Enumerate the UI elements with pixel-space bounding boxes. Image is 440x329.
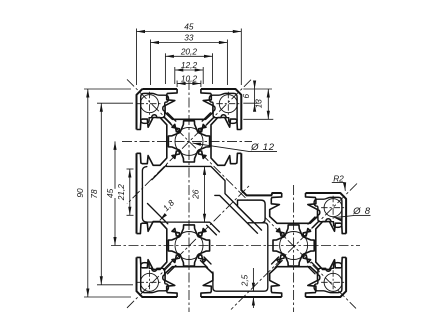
inner corner pocket cavity (238, 200, 266, 223)
svg-text:21,2: 21,2 (116, 184, 126, 202)
dimension 33 (151, 33, 228, 45)
extension lines top (137, 29, 242, 88)
boss 2 crosshair (216, 92, 240, 116)
dimension 26 (191, 166, 206, 222)
svg-text:Ø 8: Ø 8 (352, 206, 371, 217)
T-slot: left face lower slot (137, 222, 167, 270)
extension lines right of top section (243, 89, 273, 119)
leader and label R2 (332, 173, 347, 191)
dimension 78 (89, 103, 103, 285)
dimension 20,2 (165, 46, 212, 58)
svg-text:13: 13 (253, 99, 263, 109)
svg-text:6: 6 (241, 94, 251, 99)
interior cavity walls and ribs (142, 113, 319, 291)
boss 3 crosshair (138, 270, 162, 294)
T-slot: bottom face right slot (270, 267, 318, 297)
centerline vertical through right core (293, 185, 295, 312)
dimension 21,2 (116, 169, 131, 215)
diagonal centerline TL corner to BR corner (127, 79, 356, 308)
centerline horizontal through upper core (122, 140, 252, 142)
svg-text:20,2: 20,2 (180, 46, 198, 56)
centerline horizontal through middle and right cores (111, 245, 360, 247)
svg-text:45: 45 (184, 22, 194, 32)
screw boss right-leg bottom-right boss (Ø8) (314, 263, 342, 293)
outer contour of profile (137, 89, 347, 297)
label 1,8 wall thickness (159, 197, 177, 221)
T-slot: bottom face left slot (165, 267, 213, 297)
diagonal centerline TR corner to left mid (127, 80, 251, 204)
boss 4 crosshair (321, 196, 345, 220)
dimension 2,5 bottom wall (240, 268, 255, 308)
dimension 12,2 (175, 60, 203, 72)
T-slot: top face slot (165, 89, 213, 119)
svg-text:Ø 12: Ø 12 (250, 142, 275, 153)
T-slot: right leg right face slot (316, 222, 346, 270)
svg-text:10,2: 10,2 (181, 74, 198, 84)
screw boss right-leg top-right boss (Ø8) (314, 197, 342, 227)
T-slot: top section right face slot (211, 117, 241, 165)
screw boss top-right corner boss (Ø8) (209, 93, 237, 123)
svg-text:33: 33 (184, 33, 194, 43)
svg-text:90: 90 (75, 188, 85, 198)
T-slot: right leg top face slot (270, 193, 318, 223)
leader and label Ø8 (333, 206, 371, 222)
dimension 45 top width (137, 22, 242, 34)
leader and label Ø12 (192, 142, 277, 153)
svg-text:78: 78 (89, 189, 99, 199)
core bore right core (Ø12) (273, 225, 314, 266)
diagonal centerline BL corner to inner corner (127, 185, 250, 308)
screw boss bottom-left corner boss (Ø8) (141, 263, 169, 293)
svg-text:26: 26 (191, 189, 201, 200)
boss 5 crosshair (321, 270, 345, 294)
svg-text:12,2: 12,2 (181, 60, 198, 70)
core bore middle core (Ø12) (168, 225, 209, 266)
diagonal centerline right-leg TR to bottom mid (231, 184, 357, 310)
boss 1 crosshair (138, 92, 162, 116)
T-slot: left face upper slot (137, 117, 167, 165)
screw boss top-left corner boss (Ø8) (141, 93, 169, 123)
core bore upper core (Ø12) (168, 121, 209, 162)
dimension 10,2 (177, 74, 201, 86)
centerline vertical through upper and middle cores (188, 80, 190, 312)
extension lines left (84, 89, 134, 297)
dimension 13 (253, 89, 270, 119)
svg-text:45: 45 (105, 188, 115, 198)
dimension 6 (241, 81, 256, 112)
dimension 90 (75, 89, 90, 297)
svg-text:2,5: 2,5 (240, 274, 250, 287)
svg-text:R2: R2 (333, 173, 344, 183)
dimension 45 core spacing (105, 141, 119, 245)
